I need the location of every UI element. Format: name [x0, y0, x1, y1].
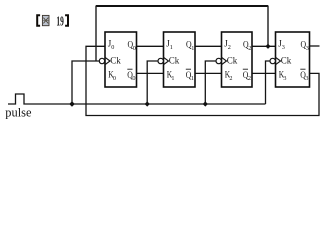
svg-text:0: 0 — [133, 45, 136, 52]
svg-text:2: 2 — [228, 44, 231, 51]
svg-text:3: 3 — [283, 75, 286, 82]
svg-text:2: 2 — [248, 45, 251, 52]
svg-text:pulse: pulse — [5, 105, 32, 119]
svg-text:1: 1 — [171, 75, 174, 82]
svg-text:0: 0 — [132, 75, 135, 82]
svg-text:3: 3 — [305, 75, 308, 82]
svg-text:1: 1 — [170, 44, 173, 51]
svg-text:2: 2 — [229, 75, 232, 82]
svg-text:1: 1 — [191, 75, 194, 82]
svg-text:0: 0 — [111, 44, 114, 51]
svg-text:Ck: Ck — [169, 56, 180, 66]
svg-text:3: 3 — [306, 45, 309, 52]
svg-text:0: 0 — [113, 75, 116, 82]
svg-text:Ck: Ck — [227, 56, 238, 66]
svg-text:3: 3 — [282, 44, 285, 51]
svg-text:Ck: Ck — [281, 56, 292, 66]
svg-text:2: 2 — [248, 75, 251, 82]
svg-text:Ck: Ck — [110, 56, 121, 66]
svg-text:1: 1 — [191, 45, 194, 52]
svg-text:19: 19 — [56, 13, 64, 28]
